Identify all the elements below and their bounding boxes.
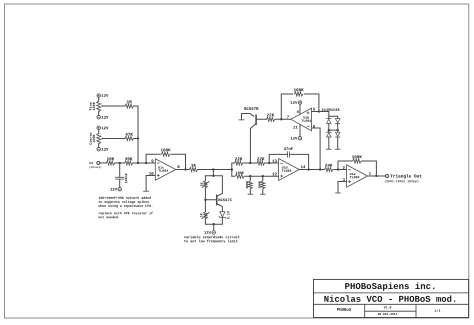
terminal Triangle Out xyxy=(386,175,389,178)
potentiometer Fine 100K xyxy=(97,101,101,112)
pin 14 label xyxy=(301,165,306,168)
label Fine xyxy=(89,102,91,110)
resistor 1M xyxy=(125,104,134,108)
wire diode clamp top xyxy=(329,112,338,119)
wire U1C output xyxy=(176,169,189,171)
diode D1 1N4148 xyxy=(327,118,332,120)
resistor 100K (U1A feedback) xyxy=(353,159,362,163)
wire collector branch xyxy=(213,176,222,194)
note zener circuit xyxy=(184,236,240,243)
wire U1D output xyxy=(299,169,324,171)
ground (U1A pin3) xyxy=(335,192,340,194)
pin 11 label xyxy=(293,126,297,129)
title text company xyxy=(324,282,455,315)
ground (BC557B emitter) xyxy=(239,119,244,121)
wire lower 1K to -12V node xyxy=(205,219,213,225)
label 4x1N4148 xyxy=(322,108,340,111)
wire network left vertical xyxy=(231,163,233,176)
-12V supply (zener circuit) xyxy=(213,224,215,231)
trimmer 1K (upper) xyxy=(203,181,207,188)
wire U1C feedback left xyxy=(145,154,147,163)
wire CV to 10K xyxy=(100,162,107,164)
transistor Q1 BC547C xyxy=(217,193,223,196)
wire pin11 to -12V xyxy=(299,124,301,136)
wire 39K to U1C xyxy=(133,162,156,164)
title text project xyxy=(324,295,455,302)
op-amp U1C TL084 xyxy=(155,159,176,180)
+12V supply (Fine pot top) xyxy=(98,97,100,102)
wire U1B pin6 down to triangle line xyxy=(312,128,321,170)
title text date xyxy=(378,313,397,315)
label Coarse xyxy=(89,133,91,145)
wire down from output node xyxy=(212,170,214,176)
wire pin4 to +12V xyxy=(299,104,301,114)
ground (right 100K) xyxy=(260,193,265,195)
pin 3 label xyxy=(343,178,345,181)
pin 2 label xyxy=(343,166,345,169)
wire U1A pin3 to ground xyxy=(338,182,347,193)
pin 4 label xyxy=(297,110,299,113)
pin 6 label xyxy=(313,125,315,128)
-12V supply (Coarse pot bottom) xyxy=(98,143,100,148)
pin 1 label xyxy=(369,172,371,175)
wire 22K to BC557B base xyxy=(257,118,267,120)
pin 7 label xyxy=(287,116,289,119)
wire diode middle bar xyxy=(328,123,330,130)
resistor 47K xyxy=(125,136,134,140)
title text author xyxy=(337,308,351,311)
pin 9 label xyxy=(151,160,153,163)
wire diodes to ground xyxy=(328,137,330,149)
resistor 100K (U1B feedback) xyxy=(294,92,303,96)
pin 10 label xyxy=(149,172,153,175)
-12V supply (U1B pin11) xyxy=(298,136,302,140)
wire U1B pin5 to diode network xyxy=(312,111,329,113)
diode D2 1N4148 xyxy=(335,122,340,124)
wire 10K to 39K xyxy=(115,162,125,164)
wire trimmer to base node xyxy=(204,188,206,212)
wire to trimmer 1K xyxy=(205,176,213,181)
transistor Q2 BC557B xyxy=(244,107,258,110)
wire U1B output to 22K xyxy=(275,118,291,120)
wire U1B feedback left xyxy=(281,94,293,119)
+12V supply (Coarse pot top) xyxy=(98,129,100,133)
terminal CV input xyxy=(97,162,100,165)
resistor 22K (second) xyxy=(257,161,265,165)
pin 12 label xyxy=(272,173,276,176)
resistor 100K (to ground, left) xyxy=(249,176,251,180)
ground (diode clamp left) xyxy=(326,148,331,150)
pot Fine wiper arrow xyxy=(103,105,125,107)
capacitor 100nF xyxy=(119,163,121,177)
wire 1K to network node xyxy=(198,169,232,171)
pin 13 label xyxy=(272,160,276,163)
op-amp U1D TL084 xyxy=(279,159,300,181)
wire 47nF feedback right xyxy=(290,154,309,169)
ground (left 100K) xyxy=(248,193,253,195)
resistor 24K xyxy=(325,167,333,171)
wire U1C pin10 to ground xyxy=(146,176,155,191)
op-amp U1B TL084 (comparator) xyxy=(291,108,312,131)
wire BC557B emitter to ground xyxy=(242,114,250,120)
resistor 1K (lower) xyxy=(203,212,207,219)
wire to second 22K xyxy=(243,162,257,164)
ground (U1C pin10) xyxy=(144,190,149,192)
zener diode 9.1V xyxy=(220,212,225,217)
op-amp U1A TL084 xyxy=(347,165,368,187)
resistor 22K (first) xyxy=(232,162,235,164)
wire BC557B collector down to network xyxy=(250,123,256,163)
wire coarse to summing vertical xyxy=(134,138,139,140)
-12V supply (Fine pot bottom) xyxy=(98,111,100,116)
note CV filter xyxy=(98,197,152,219)
title text sheet xyxy=(435,309,441,311)
capacitor 47nF xyxy=(287,152,289,158)
potentiometer Coarse 100K xyxy=(97,133,101,144)
title block xyxy=(314,279,469,317)
pin 8 label xyxy=(178,165,180,168)
resistor 100K (lower path) xyxy=(232,175,235,177)
title text version xyxy=(384,306,391,308)
wire 24K to U1A pin2 xyxy=(334,169,347,171)
wire zener to -12V node xyxy=(214,217,223,224)
+12V supply (U1B pin4) xyxy=(298,101,302,105)
resistor 22K (comparator out) xyxy=(266,117,274,121)
diode D4 1N4148 xyxy=(337,130,339,132)
wire U1B feedback right xyxy=(304,94,319,112)
wire 22K to U1D pin13 xyxy=(265,162,279,164)
pin 5 label xyxy=(313,108,315,111)
resistor 100K (U1C feedback) xyxy=(161,152,170,156)
resistor 1K xyxy=(189,167,197,171)
diode D3 1N4148 xyxy=(328,130,330,132)
-12V supply (100nF bottom) xyxy=(118,187,122,191)
wire U1C feedback right xyxy=(171,154,186,169)
wire U1A feedback left xyxy=(337,161,339,170)
wire U1A feedback right xyxy=(362,161,377,176)
wire 100K to U1D pin12 xyxy=(245,175,279,177)
wire U1A output xyxy=(368,175,386,177)
label output spec xyxy=(385,180,419,183)
resistor 10K xyxy=(106,161,114,165)
ground (diode clamp right) xyxy=(335,148,340,150)
resistor 100K (to ground, right) xyxy=(262,176,264,180)
wire 47nF feedback left xyxy=(269,154,287,163)
wire emitter to zener xyxy=(221,207,223,212)
resistor 39K xyxy=(125,161,133,165)
pot Coarse wiper arrow xyxy=(103,138,125,140)
wire pot summing vertical xyxy=(134,106,139,163)
